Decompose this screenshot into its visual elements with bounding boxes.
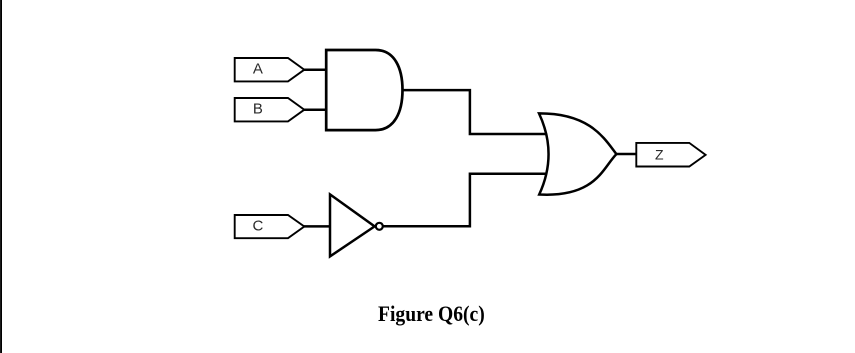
svg-text:A: A <box>253 60 263 77</box>
svg-text:Z: Z <box>655 147 664 163</box>
svg-text:B: B <box>253 100 263 117</box>
svg-text:C: C <box>252 217 263 234</box>
